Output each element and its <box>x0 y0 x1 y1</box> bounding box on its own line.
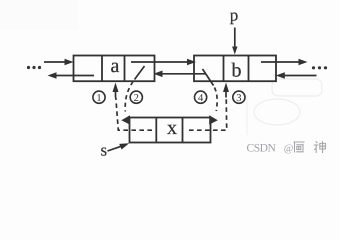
svg-text:CSDN: CSDN <box>247 143 277 155</box>
svg-text:b: b <box>232 60 242 82</box>
svg-text:4: 4 <box>198 93 204 104</box>
svg-text:a: a <box>111 55 120 77</box>
svg-text:@: @ <box>284 144 294 155</box>
svg-text:p: p <box>230 6 239 25</box>
svg-text:s: s <box>100 141 107 160</box>
svg-text:x: x <box>167 117 177 139</box>
svg-text:3: 3 <box>236 93 241 104</box>
svg-text:1: 1 <box>96 93 101 104</box>
svg-text:2: 2 <box>134 93 139 104</box>
